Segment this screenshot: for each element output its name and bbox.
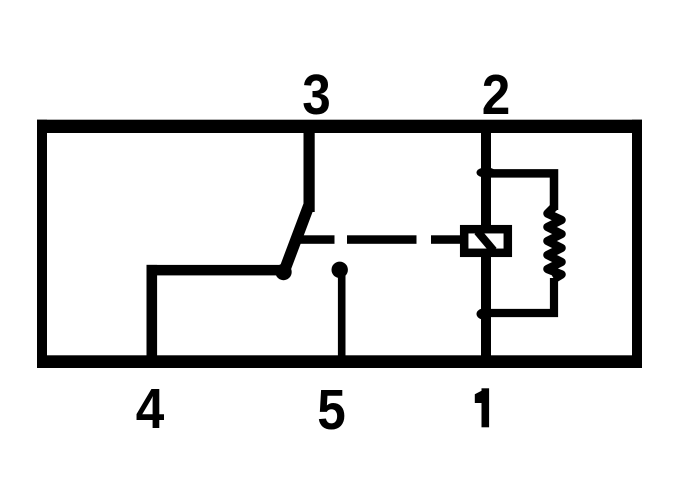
svg-text:2: 2 [482, 64, 511, 127]
switch arm Q (movable contact) [275, 207, 308, 281]
actuator linkage (dashed) [296, 235, 461, 244]
wire branch top [486, 173, 554, 210]
node junction top [477, 167, 496, 177]
wire pin 5 [338, 269, 346, 359]
wire pin 2 to pin 1 [481, 124, 491, 360]
wire switch to pin 4 [147, 265, 291, 358]
node junction bottom [477, 308, 492, 319]
coil K1 box [464, 229, 508, 253]
wire pin 3 [304, 124, 315, 212]
inductor L1 [548, 207, 562, 279]
relay case outline [37, 120, 642, 368]
svg-text:4: 4 [136, 378, 165, 441]
contact node pin 5 [332, 262, 348, 278]
coil actuator diagonal [478, 232, 494, 251]
wire branch bottom [486, 278, 554, 313]
svg-text:3: 3 [302, 64, 331, 127]
svg-text:5: 5 [317, 379, 346, 442]
pin 1 label [475, 388, 489, 427]
